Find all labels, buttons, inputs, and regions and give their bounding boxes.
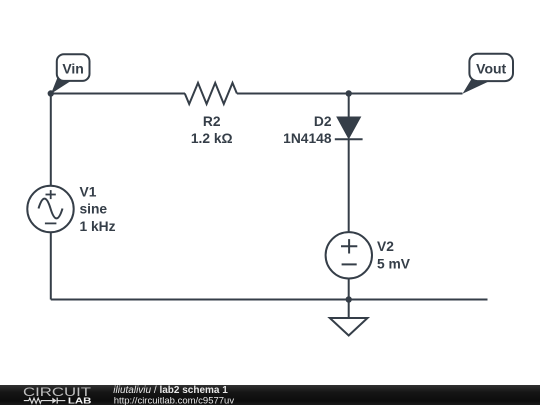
voltage source V1 — [27, 186, 73, 232]
wire bottom rail — [51, 299, 488, 301]
wire D2 cathode to V2 top — [348, 139, 350, 232]
logo diode — [52, 398, 65, 404]
footer bar — [0, 385, 540, 405]
wire top-right (R2 to Vout) — [237, 93, 463, 95]
node Vout flag — [463, 54, 514, 94]
svg-text:5 mV: 5 mV — [377, 256, 411, 271]
svg-text:iliutaliviu / lab2 schema 1: iliutaliviu / lab2 schema 1 — [113, 385, 228, 396]
svg-text:R2: R2 — [203, 114, 221, 129]
svg-text:http://circuitlab.com/c9577uv: http://circuitlab.com/c9577uv — [114, 395, 235, 405]
svg-text:V1: V1 — [80, 184, 97, 199]
voltage source V2 — [326, 232, 372, 278]
svg-text:sine: sine — [80, 202, 108, 217]
svg-text:1.2 kΩ: 1.2 kΩ — [191, 131, 233, 146]
wire diode branch top (junction to D2 anode) — [348, 94, 350, 119]
ground — [330, 318, 368, 336]
svg-text:Vin: Vin — [62, 60, 84, 76]
node Vin flag — [51, 54, 90, 94]
wire left vertical lower (V1 bottom to ground rail) — [50, 232, 52, 299]
svg-text:V2: V2 — [377, 239, 394, 254]
svg-text:1 kHz: 1 kHz — [80, 219, 116, 234]
diode D2 — [335, 117, 363, 139]
junction dot ground rail — [346, 296, 352, 302]
wire ground stub — [348, 300, 350, 319]
svg-text:1N4148: 1N4148 — [283, 131, 332, 146]
resistor R2 — [185, 83, 237, 104]
wire top-left (Vin node to R2) — [51, 93, 185, 95]
svg-text:D2: D2 — [314, 114, 332, 129]
junction dot Vin node — [48, 90, 54, 96]
wire V2 bottom to ground rail — [348, 278, 350, 299]
logo resistor squiggle — [24, 398, 53, 403]
wire left vertical upper (Vin node to V1 top) — [50, 94, 52, 186]
junction dot diode top — [346, 90, 352, 96]
svg-text:Vout: Vout — [476, 60, 506, 76]
svg-text:LAB: LAB — [68, 395, 92, 405]
